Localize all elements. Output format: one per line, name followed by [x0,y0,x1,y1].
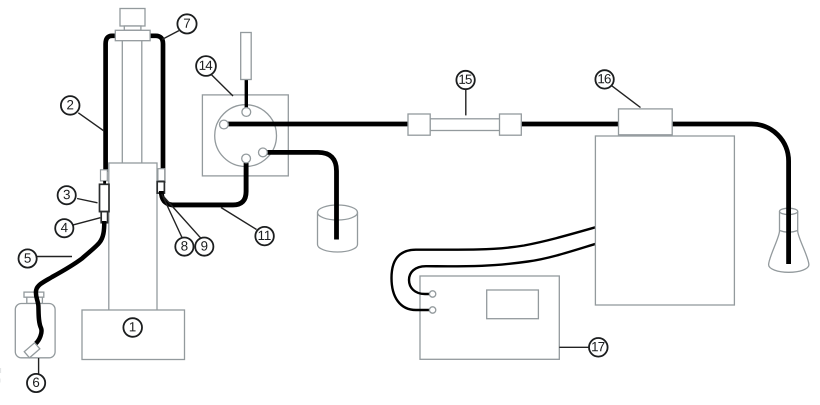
pointer 14 [212,75,234,96]
label 6 [27,374,45,392]
label circles [19,14,614,392]
label 2 [61,96,80,115]
pump base (label 1 target) [82,310,185,360]
syringe barrel body [109,163,157,311]
left port fitting stack [100,170,110,223]
label 11 [255,227,274,246]
pointer 16 [612,86,641,108]
valve port left [220,120,229,129]
label 17 [589,338,608,357]
pump plunger nut [124,26,141,30]
label 5 [19,249,37,267]
collection flask (right) [769,208,809,272]
wire: inlet tubing from fitting 4 to bottle (label 5 target) [36,221,105,344]
pointer 15 [465,89,467,115]
wire: main line valve left port to flask [224,124,789,264]
syringe holder plate [115,30,150,40]
wire: pump outlet tubing to valve bottom port (label 11 target) [161,160,246,205]
column (label 15 target) [408,114,521,135]
inlet fitting (label 4 target) [101,212,107,223]
bottle cap top [24,292,44,297]
waste beaker under valve [318,205,358,252]
right port fitting stack [157,169,165,193]
valve rotor circle [215,105,277,167]
syringe pump assembly [82,9,185,360]
wire: needle port line to valve top port [245,76,248,112]
pointer 5 [37,256,73,258]
pump plunger knob [120,9,145,27]
outlet fitting body (labels 8,9 target) [157,182,164,194]
label 7 [177,14,196,33]
pointer 7 [162,31,179,40]
detector main box [595,136,734,305]
label 15 [456,71,474,89]
detector flow cell (label 16 target) [619,109,673,135]
cable: outer signal cable detector to recorder [392,226,600,310]
label 9 [195,238,213,256]
fitting collar (grey) right [158,169,165,181]
valve port bottom [242,154,251,163]
recorder terminal upper [429,291,435,297]
label pointer lines [37,31,641,374]
pointer 4 [73,218,100,225]
pointer 6 [38,358,40,374]
pointer 3 [77,199,97,203]
label 8 [175,238,193,256]
pointer 11 [221,208,257,230]
label 1 [123,318,142,337]
valve body square [202,95,288,176]
injection needle port [241,33,252,80]
label 16 [595,70,613,88]
injection valve (label 14 target) [202,95,288,176]
valve port right [259,148,268,157]
pointer 17 [559,346,589,348]
suction filter frit (label 6 target) [24,343,40,358]
recorder box (label 17 target) [420,276,559,359]
reagent bottle (bottom left) [15,292,55,358]
wire: valve right port to waste beaker [263,152,337,239]
pointer 2 [78,113,104,131]
wire: right tubing arch from syringe holder [146,36,163,183]
plunger rod lines [121,41,123,163]
bottle body [15,304,55,358]
cropped caption fragment at left edge [0,368,1,383]
cable: inner signal cable detector to recorder [409,243,599,294]
pointer 8 [162,194,182,238]
bottle cap neck [27,297,43,303]
label 14 [196,56,216,76]
inlet check valve body (label 3 target) [100,184,110,211]
label 4 [55,219,73,237]
wire: left tubing arch from syringe holder [106,36,120,172]
connector tube segment [103,181,106,185]
recorder display [487,290,539,319]
pointer 9 [164,197,201,238]
label 3 [58,186,76,204]
recorder terminal lower [429,307,435,313]
valve port top [242,108,251,117]
fitting collar (grey) left [101,170,108,181]
